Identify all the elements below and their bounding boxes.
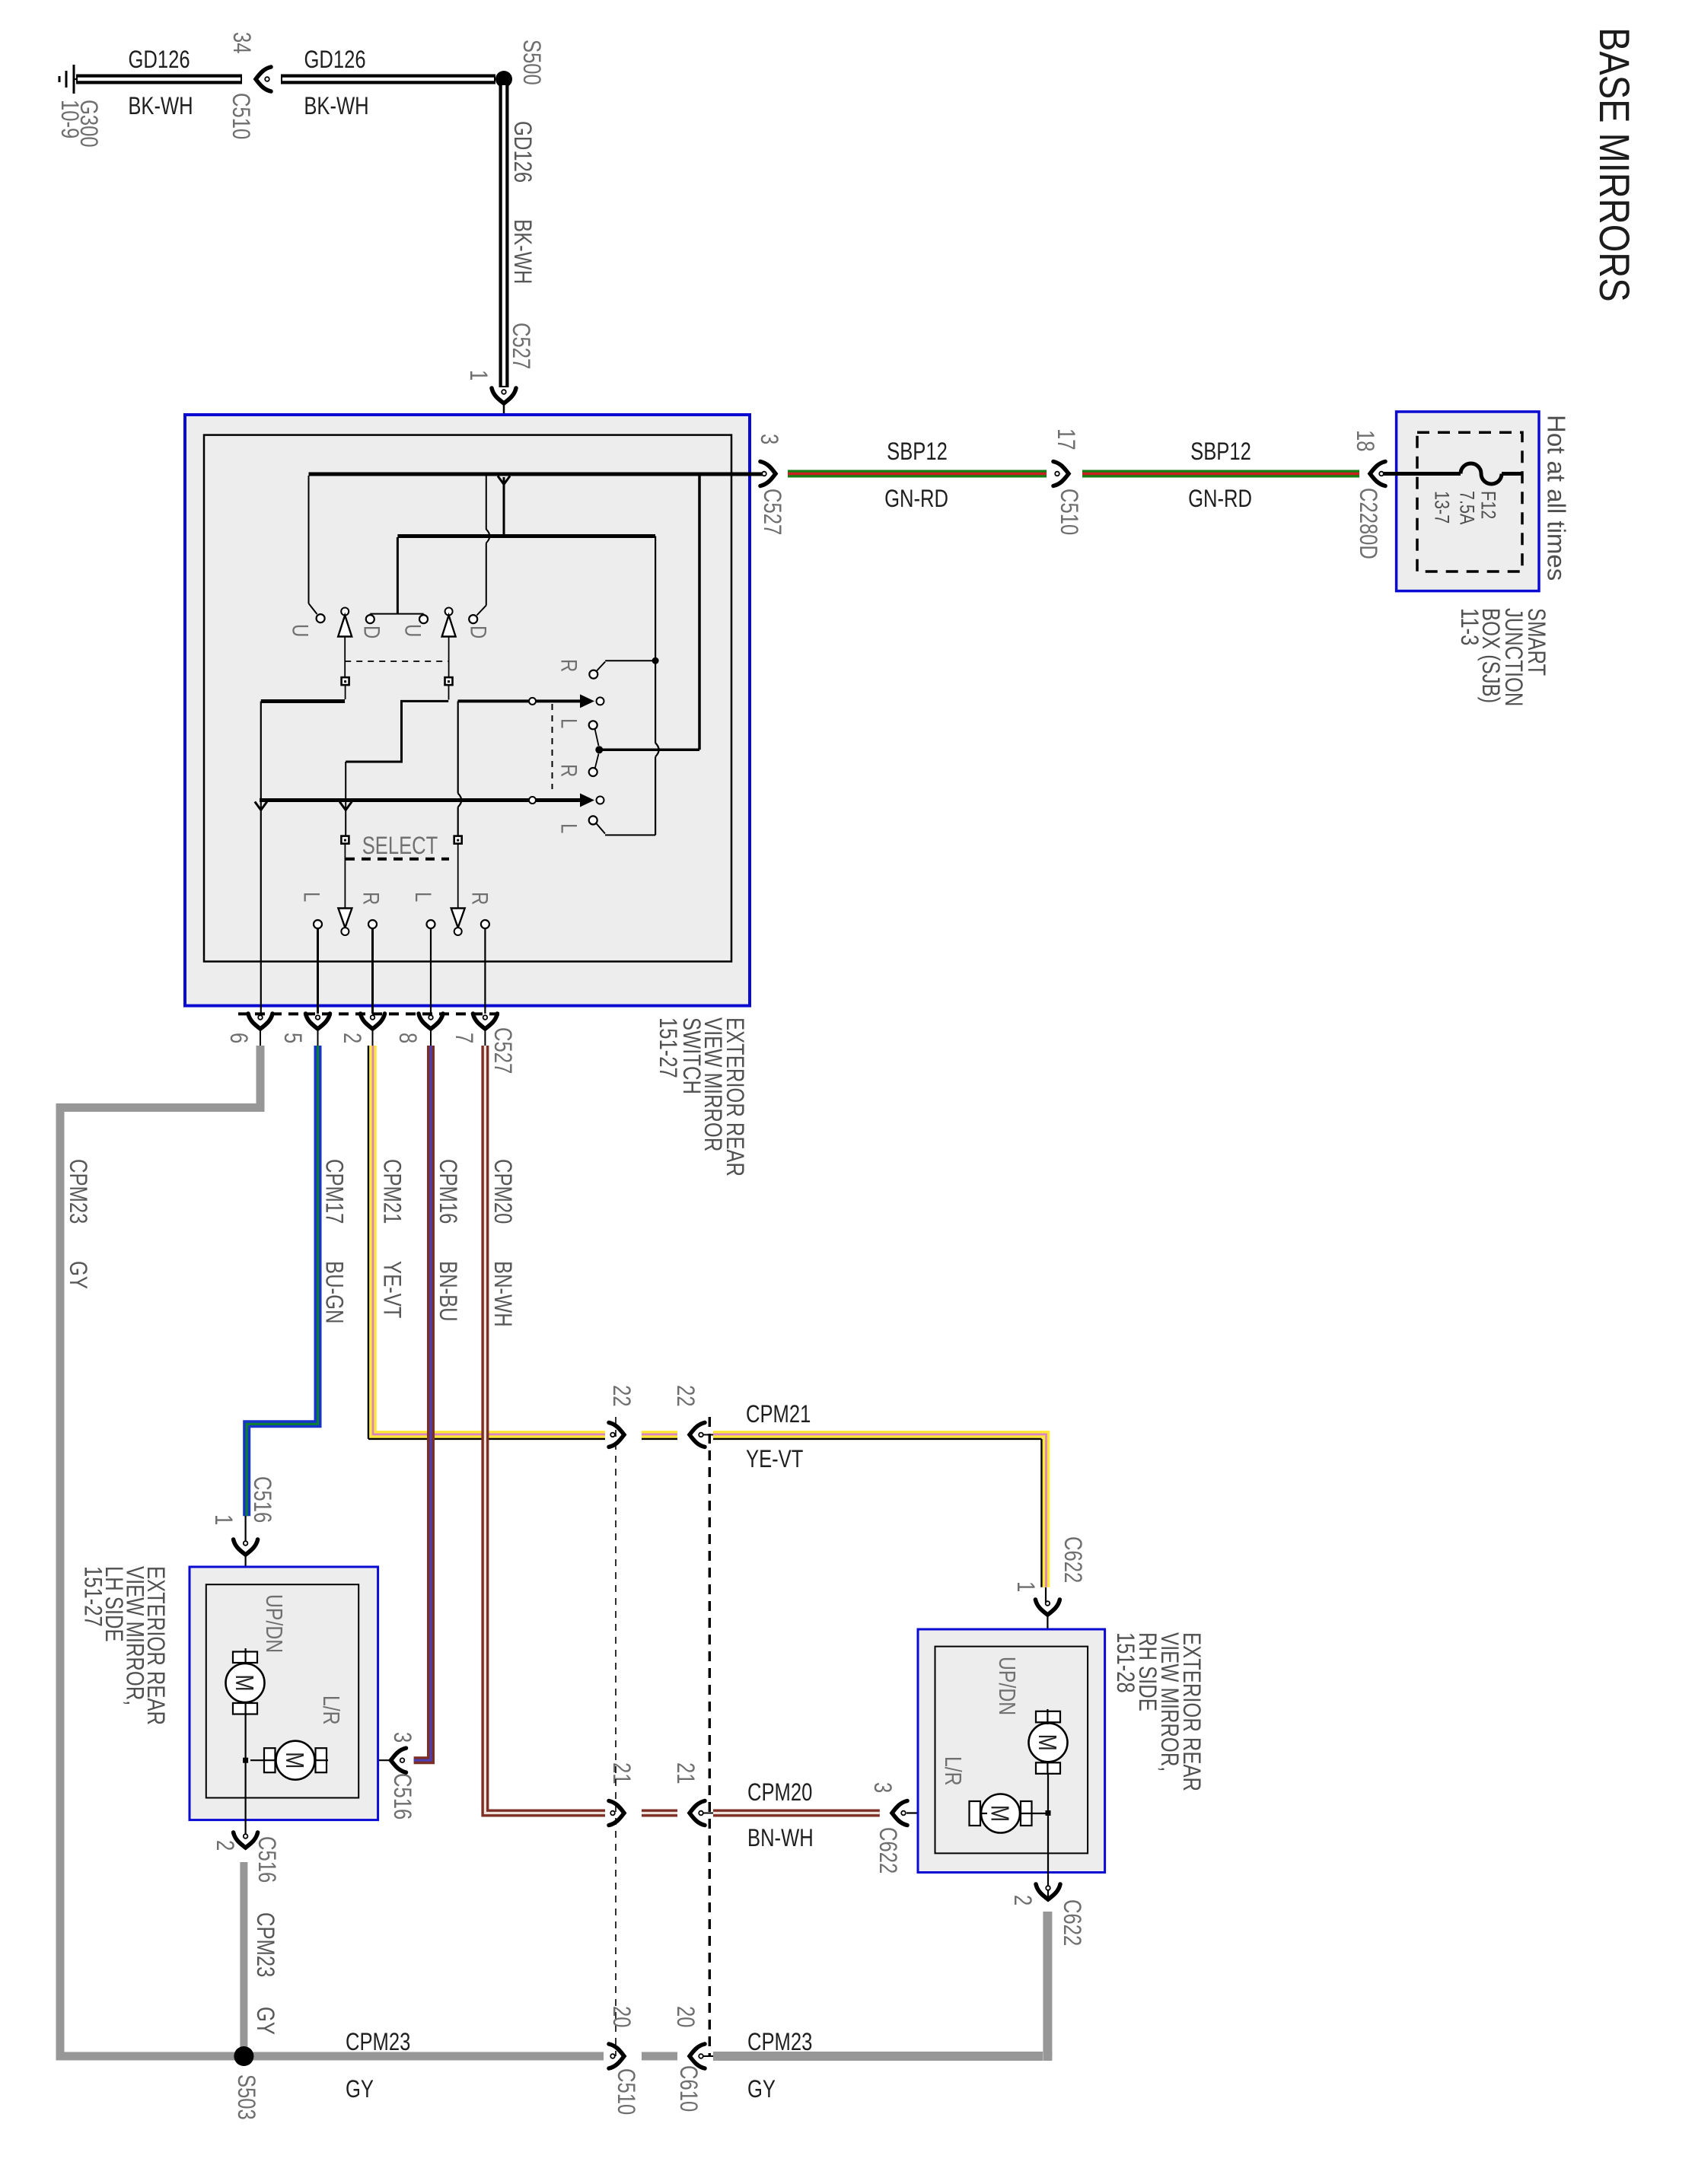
connector C622 pin1 arrow (1035, 1600, 1059, 1615)
wire through RH updn terminals (1047, 1709, 1048, 1724)
splice S503 (234, 2046, 253, 2066)
svg-text:R: R (556, 659, 582, 672)
contact square S2 (445, 677, 453, 685)
svg-text:C610: C610 (674, 2065, 701, 2112)
svg-text:D: D (359, 626, 385, 638)
pin6 stub (260, 1030, 261, 1046)
ground G300 (73, 65, 75, 94)
svg-text:YE-VT: YE-VT (378, 1261, 405, 1319)
LH mirror box (190, 1567, 378, 1820)
wire CPM23 GY bottom segC (713, 2052, 1043, 2061)
svg-text:3: 3 (388, 1732, 415, 1743)
svg-text:C516: C516 (248, 1476, 275, 1523)
svg-text:1: 1 (209, 1514, 236, 1525)
contact L sel2 (427, 920, 435, 928)
wire into LH mirror (245, 1556, 247, 1653)
pivot dot mid (595, 746, 603, 753)
connector C516 pin2 arrow (234, 1832, 258, 1848)
mech link upper dashed (345, 661, 448, 662)
svg-text:20: 20 (671, 2006, 698, 2027)
svg-text:L: L (556, 823, 582, 833)
connector C527 pin1 arrow (492, 388, 516, 403)
wire CPM21 YE-VT seg B (642, 1438, 677, 1441)
svg-text:GY: GY (251, 2007, 278, 2035)
svg-text:M: M (986, 1805, 1013, 1822)
connector arrow 22 C610 (690, 1422, 705, 1447)
wire link bnwh (703, 1813, 713, 1814)
junction square RH (1046, 1810, 1051, 1816)
svg-text:BK-WH: BK-WH (508, 219, 535, 284)
svg-text:C2280D: C2280D (1354, 488, 1381, 559)
svg-text:20: 20 (607, 2006, 634, 2027)
pin8 stub (430, 1030, 432, 1046)
wire C527 to rail2 (503, 477, 505, 534)
svg-text:34: 34 (228, 32, 254, 53)
svg-text:10-9: 10-9 (56, 100, 82, 138)
svg-text:CPM23: CPM23 (64, 1159, 91, 1224)
contact D2 (469, 615, 477, 623)
svg-text:SBP12: SBP12 (1190, 438, 1251, 465)
wire yellow to arrow (1045, 1587, 1047, 1603)
svg-text:BN-BU: BN-BU (434, 1261, 460, 1322)
wire CPM23 GY bottom segB (642, 2052, 677, 2061)
svg-text:BK-WH: BK-WH (304, 93, 368, 119)
svg-text:CPM17: CPM17 (320, 1159, 347, 1224)
SJB dashed box (1417, 432, 1522, 571)
pin 7 arrow (473, 1014, 497, 1029)
contact circle on rail3 (529, 698, 536, 705)
RH mirror box (918, 1629, 1105, 1873)
exterior mirror switch box (185, 415, 750, 1006)
svg-text:21: 21 (607, 1762, 634, 1784)
LH inner box (206, 1584, 358, 1797)
svg-text:6: 6 (225, 1033, 251, 1043)
mech link right dashed (552, 704, 553, 789)
svg-text:GD126: GD126 (128, 46, 190, 73)
svg-text:L: L (556, 718, 582, 728)
svg-text:R: R (556, 764, 582, 777)
pin2 stub (372, 1030, 374, 1046)
wire L arm bottom (597, 824, 605, 834)
svg-text:21: 21 (671, 1762, 698, 1784)
wire into LH pin3 (327, 1759, 390, 1761)
svg-text:BK-WH: BK-WH (128, 93, 193, 119)
contact common B (597, 797, 604, 804)
svg-text:151-27: 151-27 (79, 1566, 106, 1627)
switch inner box (204, 435, 731, 962)
RH inner box (935, 1647, 1088, 1854)
svg-text:CPM21: CPM21 (378, 1159, 405, 1224)
wire link yellow (703, 1434, 713, 1435)
pin 8 arrow (419, 1014, 443, 1029)
wiper arrow rail4 (580, 794, 594, 807)
wiper U/D left (341, 608, 349, 616)
svg-text:8: 8 (393, 1033, 420, 1043)
motor L/R LH (276, 1741, 315, 1780)
svg-text:M: M (1033, 1734, 1060, 1751)
svg-text:U: U (400, 624, 426, 637)
contact square SELECT right (454, 836, 462, 844)
svg-text:C527: C527 (507, 323, 534, 369)
mech link select dashed (346, 858, 449, 861)
svg-text:7: 7 (450, 1033, 476, 1043)
svg-text:C516: C516 (388, 1773, 415, 1819)
wire CPM23 GY bottom segA (56, 2052, 604, 2061)
svg-text:UP/DN: UP/DN (261, 1594, 287, 1653)
wire GD126 BK-WH segment 2 (281, 75, 495, 84)
wire motor link LH (245, 1714, 247, 1836)
svg-text:151-27: 151-27 (654, 1017, 680, 1078)
svg-text:7.5A: 7.5A (1455, 491, 1478, 525)
wire D2 to rail1 (477, 606, 486, 616)
svg-text:R: R (467, 892, 493, 905)
svg-text:3: 3 (868, 1782, 895, 1793)
svg-text:5: 5 (279, 1033, 305, 1043)
wire CPM23 GY from pin6 (60, 1046, 260, 1108)
wire rail2 stub down (397, 537, 399, 614)
svg-text:L: L (410, 892, 436, 902)
connector arrow 21 C610 (690, 1801, 705, 1826)
svg-text:17: 17 (1052, 428, 1078, 450)
wire S2 stub (448, 685, 450, 700)
svg-text:S500: S500 (518, 40, 544, 85)
connector arrow 20 C610 (690, 2044, 705, 2068)
junction square LH (243, 1758, 248, 1763)
connector arrow 20 C510 (609, 2044, 624, 2068)
contact common A (597, 697, 604, 705)
contact R right-top (589, 670, 597, 679)
svg-text:Hot at all times: Hot at all times (1542, 415, 1570, 581)
wiper arrow rail3 (580, 694, 594, 708)
pin 5 arrow (306, 1014, 330, 1029)
svg-text:C527: C527 (489, 1027, 515, 1074)
pin 2 arrow (361, 1014, 385, 1029)
wire select-right riser (457, 701, 459, 793)
connector C510 pin17 arrow (1053, 462, 1069, 486)
connector C510 arrow (256, 67, 271, 91)
svg-text:11-3: 11-3 (1455, 608, 1482, 645)
svg-text:YE-VT: YE-VT (746, 1446, 804, 1472)
wire link gy (703, 2055, 713, 2057)
svg-text:BU-GN: BU-GN (320, 1261, 347, 1323)
svg-text:R: R (358, 892, 384, 905)
wire rail1 to U contact (308, 476, 310, 603)
svg-text:C510: C510 (227, 93, 253, 139)
contact L mid (589, 721, 597, 729)
svg-text:L: L (299, 892, 325, 902)
wire into RH pin3 (906, 1812, 975, 1813)
pin7 stub (484, 1030, 486, 1046)
svg-text:L/R: L/R (940, 1756, 966, 1786)
contact square S1 (342, 677, 349, 685)
svg-text:1: 1 (464, 370, 491, 380)
connector C622 pin3 arrow (892, 1801, 907, 1826)
wire rail2 right riser (655, 536, 656, 743)
svg-text:C527: C527 (758, 489, 785, 535)
motor L/R RH (981, 1794, 1020, 1833)
wire blue to arrow (245, 1516, 247, 1542)
svg-text:GN-RD: GN-RD (1188, 486, 1252, 512)
contact R mid (589, 768, 597, 776)
wire GD126 BK-WH vertical (499, 84, 509, 387)
svg-text:CPM20: CPM20 (489, 1159, 515, 1224)
wire select-left riser (345, 762, 346, 836)
hop right riser (655, 743, 659, 756)
wire pin6 riser (260, 702, 262, 1014)
smart junction box (1397, 412, 1539, 591)
svg-text:2: 2 (338, 1033, 365, 1043)
svg-text:UP/DN: UP/DN (994, 1657, 1020, 1715)
wire CPM21 YE-VT seg C (713, 1438, 1042, 1441)
svg-text:CPM20: CPM20 (747, 1779, 812, 1806)
connector arrow 21 C510 (609, 1801, 624, 1826)
junction arrow select-left on rail4 (339, 802, 352, 810)
svg-text:C510: C510 (1055, 489, 1082, 535)
junction arrow on rail4 left (255, 802, 267, 810)
connector C510 dashed line (615, 1417, 617, 2056)
motor UP/DN LH (226, 1663, 265, 1702)
wire pin5 drop (317, 928, 319, 1014)
wire SBP12 GN-RD seg2 (1082, 470, 1359, 478)
svg-text:C622: C622 (1059, 1536, 1085, 1583)
contact U1 (317, 614, 325, 622)
svg-text:SELECT: SELECT (362, 833, 438, 859)
svg-text:U: U (288, 624, 314, 637)
svg-text:22: 22 (607, 1385, 634, 1406)
connector arrow 22 C510 (609, 1422, 624, 1447)
svg-text:2: 2 (211, 1840, 237, 1851)
svg-text:C516: C516 (253, 1836, 279, 1883)
svg-text:22: 22 (671, 1385, 698, 1406)
wiper link right upper (448, 637, 450, 678)
contact L sel1 (314, 920, 322, 928)
svg-text:1: 1 (1012, 1581, 1038, 1592)
svg-text:CPM21: CPM21 (746, 1401, 811, 1428)
wire CPM23 GY LH drop (240, 1862, 247, 2056)
contact R sel1 (368, 920, 377, 928)
connector C527 switch dashed edge (238, 1012, 505, 1015)
wire LR left arm LH (250, 1759, 277, 1761)
wire R arm (597, 662, 605, 671)
hop select-right over rail4 (458, 794, 462, 807)
svg-text:CPM23: CPM23 (346, 2029, 410, 2055)
svg-text:GD126: GD126 (508, 121, 535, 183)
svg-text:GY: GY (346, 2076, 374, 2103)
wire mid arms (595, 729, 599, 747)
wire into fuse (1384, 472, 1461, 476)
bus rail4 (260, 798, 580, 802)
svg-text:BN-WH: BN-WH (747, 1825, 814, 1851)
wiper U/D right (445, 608, 453, 616)
wire zigzag select-left to S2 (346, 701, 448, 762)
wire LR right arm RH (981, 1813, 987, 1814)
wiper select right (457, 844, 459, 909)
wire into switch (503, 405, 505, 473)
wire motor link RH (1047, 1773, 1049, 1899)
svg-text:GN-RD: GN-RD (884, 486, 948, 512)
svg-text:151-28: 151-28 (1111, 1632, 1138, 1693)
svg-text:GD126: GD126 (304, 46, 365, 73)
wire CPM20 BN-WH seg C (713, 1810, 880, 1817)
svg-text:M: M (230, 1675, 257, 1692)
connector C516 pin1 arrow (234, 1539, 258, 1555)
svg-text:13-7: 13-7 (1430, 491, 1453, 524)
wire pin8 drop (430, 928, 432, 1014)
wire D-U link (370, 613, 423, 615)
wire through LH updn terminals (245, 1648, 247, 1664)
fuse F12 (1461, 463, 1502, 484)
bus rail2 (397, 534, 655, 538)
svg-text:3: 3 (755, 434, 782, 444)
contact L bottom (589, 816, 597, 824)
connector C610 dashed line (709, 1417, 711, 2056)
wiper link left upper (344, 637, 346, 678)
contact D1 (366, 615, 374, 623)
wiper select left (344, 844, 346, 909)
svg-text:C622: C622 (874, 1827, 900, 1874)
pin 6 arrow (248, 1014, 272, 1029)
wire GD126 BK-WH segment 1 (76, 75, 242, 84)
svg-text:C622: C622 (1058, 1899, 1085, 1946)
svg-text:GY: GY (747, 2076, 776, 2103)
svg-text:C510: C510 (612, 2068, 639, 2115)
wire pin7 drop (484, 928, 486, 1014)
wire CPM16 BN-BU (414, 1046, 431, 1760)
svg-text:CPM23: CPM23 (747, 2029, 812, 2055)
wire CPM23 GY RH drop (1043, 1912, 1052, 2056)
wire common to rail1 (599, 749, 699, 752)
wire into RH mirror (1047, 1616, 1048, 1712)
wire CPM17 BU-GN (247, 1046, 317, 1516)
wire CPM20 BN-WH seg B (642, 1810, 677, 1817)
contact U2 (419, 615, 428, 623)
wire CPM21 YE-VT seg A (368, 1046, 370, 1439)
svg-text:D: D (466, 626, 492, 638)
svg-text:S503: S503 (232, 2074, 259, 2120)
bus rail1 (309, 473, 763, 476)
wire after fuse (1502, 472, 1522, 476)
svg-text:BASE MIRRORS: BASE MIRRORS (1591, 27, 1639, 302)
junction arrow C527 on rail1 (498, 476, 510, 485)
svg-text:F12: F12 (1477, 491, 1499, 519)
connector C516 pin3 arrow (391, 1748, 406, 1772)
connector C622 pin2 arrow (1036, 1884, 1060, 1899)
svg-text:GY: GY (64, 1261, 91, 1289)
bus rail3 left (261, 699, 345, 703)
svg-text:SBP12: SBP12 (887, 438, 948, 465)
contact circle on rail4 (529, 797, 536, 804)
contact R sel2 (481, 920, 489, 928)
contact square SELECT left (341, 836, 349, 844)
pin5 stub (317, 1030, 319, 1046)
svg-text:M: M (280, 1752, 307, 1769)
splice S500 (495, 71, 512, 88)
svg-text:BN-WH: BN-WH (489, 1261, 515, 1327)
bus rail3 right (458, 699, 581, 702)
svg-text:2: 2 (1008, 1895, 1035, 1905)
wire pin2 drop (371, 928, 374, 1014)
svg-text:18: 18 (1351, 430, 1378, 451)
svg-text:CPM16: CPM16 (434, 1159, 460, 1224)
junction dot R arm (652, 657, 659, 664)
wire SBP12 GN-RD seg1 (788, 470, 1047, 478)
hop over rail2 (486, 530, 490, 543)
motor UP/DN RH (1029, 1723, 1068, 1762)
connector C2280D pin18 arrow (1370, 462, 1385, 486)
svg-text:CPM23: CPM23 (251, 1912, 278, 1977)
wire S1 to rail3 (345, 685, 346, 699)
wire CPM20 BN-WH seg A (485, 1046, 605, 1813)
pin 3 arrow (760, 462, 776, 486)
svg-text:L/R: L/R (318, 1695, 344, 1725)
